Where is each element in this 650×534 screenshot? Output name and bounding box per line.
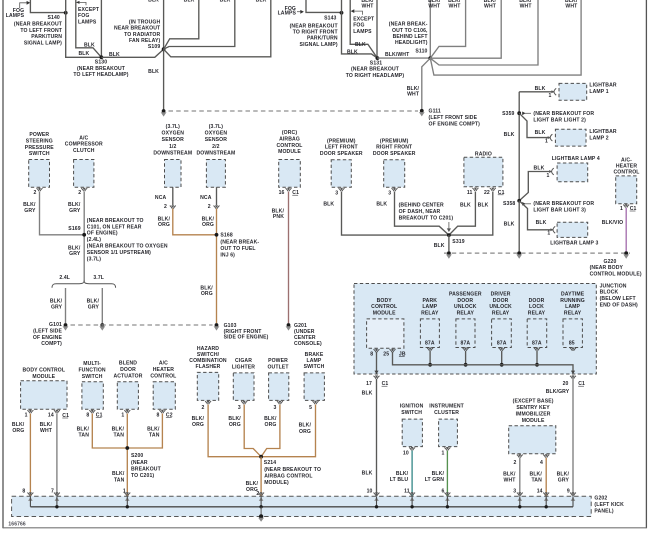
svg-text:C101, ON LEFT REAR: C101, ON LEFT REAR	[87, 224, 142, 230]
svg-text:TAN: TAN	[531, 477, 542, 483]
svg-text:2: 2	[164, 204, 167, 210]
page border left	[2, 0, 4, 528]
svg-text:GRY: GRY	[51, 304, 63, 310]
svg-text:BLK: BLK	[148, 69, 159, 75]
lightbar lamp 1 box	[559, 83, 587, 100]
svg-text:SIDE OF ENGINE): SIDE OF ENGINE)	[224, 335, 269, 341]
svg-text:RELAY: RELAY	[492, 310, 510, 316]
svg-text:G101: G101	[49, 322, 62, 328]
svg-text:BLEND: BLEND	[119, 361, 137, 367]
svg-text:BLK/: BLK/	[432, 471, 445, 477]
svg-text:MODULE: MODULE	[32, 374, 55, 380]
S110 right fan wire 3	[430, 0, 538, 65]
strip junction dots	[55, 505, 58, 508]
junction block outer box	[354, 284, 596, 375]
svg-text:1: 1	[121, 412, 124, 418]
svg-text:OF DASH, NEAR: OF DASH, NEAR	[399, 209, 441, 215]
wire except-fog-lamps left	[76, 0, 102, 57]
svg-text:TO RADIATOR: TO RADIATOR	[124, 32, 160, 38]
svg-text:GRY: GRY	[558, 477, 570, 483]
svg-text:TO LEFT FRONT: TO LEFT FRONT	[20, 28, 62, 34]
svg-text:WHT: WHT	[565, 3, 578, 9]
a/c-heater pin 1 C1	[623, 205, 629, 208]
svg-text:ORG: ORG	[201, 291, 213, 297]
svg-text:SENTRY KEY: SENTRY KEY	[516, 405, 550, 411]
wire PSP to S169 (BLK/GRY)	[40, 192, 85, 235]
wire BCM pin14 to strip (BLK/WHT)	[56, 414, 58, 497]
wire O2-1 to S168 (BLK/ORG)	[173, 209, 217, 235]
svg-text:5: 5	[309, 405, 312, 411]
svg-text:1: 1	[25, 412, 28, 418]
svg-text:HEADLIGHT): HEADLIGHT)	[395, 40, 428, 46]
JB internal bus wire	[393, 352, 574, 371]
node S109	[162, 47, 166, 51]
svg-text:BLK/GRY: BLK/GRY	[546, 389, 570, 395]
svg-text:2: 2	[78, 190, 81, 196]
lightbar lamp 3 box	[557, 222, 588, 237]
svg-text:NEAR BREAKOUT: NEAR BREAKOUT	[114, 26, 161, 32]
svg-text:BLK/WHT: BLK/WHT	[385, 52, 410, 58]
svg-text:(LEFT KICK: (LEFT KICK	[594, 502, 624, 508]
svg-text:WHT: WHT	[504, 477, 517, 483]
JB exit pin 17 C1	[374, 371, 378, 375]
svg-text:BLK/: BLK/	[40, 422, 53, 428]
svg-text:LEFT FRONT: LEFT FRONT	[325, 145, 359, 151]
svg-text:S319: S319	[452, 239, 464, 245]
svg-text:FUNCTION: FUNCTION	[78, 368, 105, 374]
svg-text:11: 11	[467, 190, 473, 196]
wire top into S109	[163, 0, 165, 49]
svg-text:BLK: BLK	[220, 0, 231, 4]
ground S319 point	[447, 251, 451, 255]
svg-text:1: 1	[620, 206, 623, 212]
svg-text:3: 3	[238, 405, 241, 411]
svg-text:22: 22	[484, 190, 490, 196]
svg-text:CONSOLE): CONSOLE)	[294, 341, 322, 347]
svg-text:BLK: BLK	[478, 202, 489, 208]
svg-text:OXYGEN: OXYGEN	[162, 131, 185, 137]
svg-text:A/C-: A/C-	[621, 157, 632, 163]
svg-text:WHT: WHT	[449, 3, 462, 9]
svg-text:BODY CONTROL: BODY CONTROL	[22, 367, 65, 373]
svg-text:AIRBAG: AIRBAG	[279, 136, 300, 142]
svg-text:(NEAR BREAKOUT: (NEAR BREAKOUT	[351, 67, 400, 73]
wire a/c-heater to G220 (BLK/VIO)	[625, 208, 627, 251]
svg-text:BLK: BLK	[355, 42, 366, 48]
node S319	[447, 233, 451, 237]
svg-text:SENSOR: SENSOR	[162, 137, 184, 143]
wire sentry pin2 to strip (BLK/WHT)	[519, 458, 521, 497]
svg-text:A/C: A/C	[79, 135, 88, 141]
svg-text:87A: 87A	[461, 341, 471, 347]
wire S130 to S109	[101, 49, 163, 57]
svg-text:WHT: WHT	[362, 3, 375, 9]
svg-text:(ORC): (ORC)	[282, 130, 297, 136]
svg-text:TAN: TAN	[79, 433, 90, 439]
svg-text:S140: S140	[48, 15, 60, 21]
wire S140 down to S130	[66, 0, 102, 57]
svg-text:(NEAR: (NEAR	[131, 460, 148, 466]
svg-text:S200: S200	[131, 453, 143, 459]
svg-text:1: 1	[549, 93, 552, 99]
S110 right fan wire 2	[430, 0, 501, 58]
svg-text:2: 2	[208, 204, 211, 210]
svg-text:(LEFT FRONT SIDE: (LEFT FRONT SIDE	[429, 115, 478, 121]
svg-text:TAN: TAN	[149, 433, 160, 439]
svg-text:WHT: WHT	[407, 92, 420, 98]
svg-text:GRY: GRY	[69, 251, 81, 257]
svg-text:BLK/: BLK/	[77, 427, 90, 433]
svg-text:BLK: BLK	[504, 132, 515, 138]
strip entry arrows	[27, 493, 33, 496]
svg-text:9: 9	[567, 488, 570, 494]
svg-text:BODY: BODY	[377, 298, 393, 304]
wire BCM pin1 to strip (BLK/ORG)	[29, 414, 31, 497]
svg-text:BLK/: BLK/	[112, 427, 125, 433]
svg-text:(NEAR BREAKOUT FOR: (NEAR BREAKOUT FOR	[533, 111, 594, 117]
svg-text:LIGHTBAR: LIGHTBAR	[589, 129, 616, 135]
svg-text:CLUTCH: CLUTCH	[73, 148, 95, 154]
svg-text:BLK/: BLK/	[112, 471, 125, 477]
svg-text:8: 8	[22, 488, 25, 494]
svg-text:BLK/: BLK/	[530, 471, 543, 477]
svg-text:OUT TO C106,: OUT TO C106,	[392, 28, 428, 34]
svg-text:BLK/: BLK/	[557, 471, 570, 477]
svg-text:(3.7L): (3.7L)	[87, 257, 101, 263]
svg-text:10: 10	[403, 451, 409, 457]
svg-text:CLUSTER: CLUSTER	[434, 410, 459, 416]
svg-text:CONTROL MODULE): CONTROL MODULE)	[590, 272, 642, 278]
svg-text:BLK: BLK	[535, 86, 546, 92]
svg-text:87A: 87A	[497, 341, 507, 347]
node S140	[64, 11, 68, 15]
svg-text:OUT TO FUEL: OUT TO FUEL	[220, 246, 255, 252]
svg-text:(BEHIND CENTER: (BEHIND CENTER	[399, 202, 444, 208]
svg-text:(NEAR BODY: (NEAR BODY	[590, 265, 624, 271]
svg-text:1: 1	[545, 139, 548, 145]
svg-text:DRIVER: DRIVER	[491, 292, 511, 298]
svg-text:RELAY: RELAY	[421, 310, 439, 316]
svg-text:14: 14	[537, 488, 543, 494]
svg-text:WHT: WHT	[40, 428, 53, 434]
svg-text:LIGHT BAR LIGHT 3): LIGHT BAR LIGHT 3)	[533, 207, 586, 213]
wire ACC down through S169	[83, 192, 85, 282]
wire S143 down to S131	[342, 0, 378, 58]
wire radio 11 to S319	[449, 192, 476, 236]
svg-text:BLK: BLK	[148, 0, 159, 4]
ground G201	[287, 323, 291, 327]
node S214	[259, 455, 263, 459]
svg-text:S130: S130	[95, 60, 107, 66]
wire 20 down to G202 strip (BLK/GRY)	[572, 379, 574, 496]
svg-text:S359: S359	[502, 111, 514, 117]
S109 right fan wire 2	[164, 0, 235, 49]
svg-text:RELAY: RELAY	[564, 310, 582, 316]
svg-text:PARK: PARK	[423, 298, 438, 304]
wire 2.4L to G101	[65, 288, 67, 323]
svg-text:(PREMIUM): (PREMIUM)	[380, 138, 409, 144]
wire driver relay to bus	[501, 351, 503, 365]
svg-text:CONTROL: CONTROL	[150, 374, 176, 380]
svg-text:RUNNING: RUNNING	[560, 298, 585, 304]
svg-text:BLK: BLK	[109, 52, 120, 58]
svg-text:2.4L: 2.4L	[59, 275, 70, 281]
svg-text:(BELOW LEFT: (BELOW LEFT	[600, 296, 637, 302]
ground G103	[215, 323, 219, 327]
svg-text:(LEFT SIDE: (LEFT SIDE	[33, 329, 62, 335]
svg-text:SWITCH: SWITCH	[29, 151, 50, 157]
node S200	[125, 446, 129, 450]
svg-text:INSTRUMENT: INSTRUMENT	[429, 403, 464, 409]
wire except-fog-lamps right	[350, 0, 377, 58]
svg-text:BLK: BLK	[256, 0, 267, 4]
svg-text:(NEAR BREAKOUT TO: (NEAR BREAKOUT TO	[87, 218, 144, 224]
svg-text:S143: S143	[324, 15, 336, 21]
svg-text:BLK/: BLK/	[228, 416, 241, 422]
svg-text:SIGNAL LAMP): SIGNAL LAMP)	[300, 42, 338, 48]
wire S319 to ground	[448, 235, 450, 251]
svg-text:3.7L: 3.7L	[93, 275, 104, 281]
node S110	[428, 56, 432, 60]
wire S358 up to lightbar lamp 4	[519, 172, 551, 201]
wire passenger relay to bus	[465, 351, 467, 365]
svg-text:3: 3	[335, 190, 338, 196]
svg-text:UNLOCK: UNLOCK	[454, 304, 477, 310]
svg-text:PARK/TURN: PARK/TURN	[31, 34, 62, 40]
svg-text:OF ENGINE COMPT): OF ENGINE COMPT)	[429, 122, 481, 128]
svg-text:POWER: POWER	[268, 358, 288, 364]
node S168	[215, 233, 219, 237]
svg-text:(PREMIUM): (PREMIUM)	[327, 138, 356, 144]
svg-text:17: 17	[366, 381, 372, 387]
wire S109 down to ground	[163, 49, 165, 109]
svg-text:INJ 6): INJ 6)	[220, 253, 235, 259]
wire R speaker to S319	[395, 192, 449, 236]
wire airbag to G201 (BLK/PNK)	[288, 192, 290, 324]
svg-text:MODULE: MODULE	[278, 149, 301, 155]
svg-text:COMPT): COMPT)	[41, 341, 62, 347]
svg-text:END OF DASH): END OF DASH)	[600, 302, 638, 308]
svg-text:RIGHT FRONT: RIGHT FRONT	[376, 145, 413, 151]
G202 ground strip	[12, 496, 592, 516]
svg-text:(NEAR BREAKOUT: (NEAR BREAKOUT	[290, 23, 339, 29]
svg-text:20: 20	[563, 381, 569, 387]
svg-text:1: 1	[547, 231, 550, 237]
svg-text:BLK: BLK	[79, 51, 90, 57]
svg-text:EXCEPT: EXCEPT	[353, 16, 375, 22]
svg-text:2/2: 2/2	[212, 144, 219, 150]
svg-text:DOOR SPEAKER: DOOR SPEAKER	[320, 151, 363, 157]
svg-text:LAMPS: LAMPS	[278, 11, 297, 17]
svg-text:BLK/: BLK/	[192, 416, 205, 422]
svg-text:ORG: ORG	[265, 422, 277, 428]
svg-text:WHT: WHT	[428, 3, 441, 9]
ground G111	[420, 109, 424, 113]
svg-text:11: 11	[404, 488, 410, 494]
svg-text:MODULE: MODULE	[373, 310, 396, 316]
svg-text:1: 1	[547, 173, 550, 179]
svg-text:LAMP 1: LAMP 1	[589, 89, 608, 95]
ground a/c-heater point	[624, 251, 628, 255]
wire brake lamp to S214	[261, 405, 315, 457]
svg-text:SIGNAL LAMP): SIGNAL LAMP)	[24, 40, 62, 46]
svg-text:BREAKOUT: BREAKOUT	[131, 466, 162, 472]
wire 17 down to G202 strip (BLK)	[376, 379, 378, 496]
svg-text:ORG: ORG	[299, 429, 311, 435]
svg-text:S109: S109	[148, 44, 160, 50]
svg-text:BLK/: BLK/	[503, 471, 516, 477]
svg-text:UNLOCK: UNLOCK	[489, 304, 512, 310]
svg-text:87A: 87A	[425, 341, 435, 347]
svg-text:14: 14	[48, 412, 54, 418]
svg-text:PRESSURE: PRESSURE	[25, 145, 54, 151]
wire door lock relay to bus	[536, 351, 538, 365]
svg-text:IMMOBILIZER: IMMOBILIZER	[516, 412, 551, 418]
ground G101 points	[64, 323, 68, 327]
wire 3.7L to G101	[101, 288, 103, 323]
svg-text:ORG: ORG	[202, 222, 214, 228]
svg-text:BLK: BLK	[534, 166, 545, 172]
svg-text:2: 2	[34, 190, 37, 196]
JB exit pin 20 C1	[571, 371, 575, 375]
svg-text:BLK: BLK	[362, 391, 373, 397]
page border right	[645, 0, 647, 528]
node S359	[518, 92, 520, 201]
svg-text:DOOR SPEAKER: DOOR SPEAKER	[373, 151, 416, 157]
svg-text:COMPRESSOR: COMPRESSOR	[65, 142, 103, 148]
node S358	[517, 199, 521, 203]
svg-text:BLOCK: BLOCK	[600, 290, 619, 296]
wire S359 to lightbar lamp 2	[519, 113, 550, 137]
wire S214 to strip (BLK/ORG)	[260, 457, 262, 497]
wire S131 to S110	[377, 57, 430, 59]
svg-text:NCA: NCA	[155, 195, 167, 201]
wire power outlet to S214	[261, 405, 280, 457]
svg-text:87A: 87A	[532, 341, 542, 347]
svg-text:PNK: PNK	[273, 214, 284, 220]
svg-text:ACTUATOR: ACTUATOR	[113, 374, 142, 380]
svg-text:PARK/TURN: PARK/TURN	[307, 36, 338, 42]
S110 right fan wire 1	[430, 0, 465, 58]
S109 right fan wire 1	[164, 0, 199, 49]
svg-text:(NEAR BREAK-: (NEAR BREAK-	[220, 240, 259, 246]
wire fog-lamps left (to S140)	[30, 0, 65, 13]
svg-text:SWITCH: SWITCH	[304, 364, 325, 370]
ground G111-left point	[162, 109, 166, 113]
dashed ground line G111	[169, 110, 419, 112]
svg-text:RELAY: RELAY	[528, 310, 546, 316]
svg-text:4: 4	[540, 460, 543, 466]
svg-text:MODULE): MODULE)	[264, 480, 289, 486]
svg-text:7: 7	[51, 488, 54, 494]
wire S358 to lightbar lamp 3	[519, 201, 552, 230]
svg-text:(NEAR BREAKOUT FOR: (NEAR BREAKOUT FOR	[533, 201, 594, 207]
svg-text:8: 8	[86, 412, 89, 418]
svg-text:(3.7L): (3.7L)	[166, 124, 180, 130]
G202 ground point	[260, 507, 262, 516]
svg-text:FOG: FOG	[353, 23, 364, 29]
svg-text:S110: S110	[415, 49, 427, 55]
svg-text:3: 3	[513, 488, 516, 494]
svg-text:G220: G220	[604, 259, 617, 265]
svg-text:8: 8	[156, 412, 159, 418]
wire sentry pin4 to strip (BLK/TAN)	[545, 458, 547, 497]
svg-text:LIGHTBAR LAMP 3: LIGHTBAR LAMP 3	[550, 240, 598, 246]
svg-text:10: 10	[367, 488, 373, 494]
svg-text:LAMPS: LAMPS	[353, 29, 372, 35]
svg-text:S131: S131	[370, 60, 382, 66]
svg-text:RADIO: RADIO	[475, 151, 492, 157]
svg-text:ORG: ORG	[158, 222, 170, 228]
svg-text:BLK/: BLK/	[12, 422, 25, 428]
svg-text:TO LEFT HEADLAMP): TO LEFT HEADLAMP)	[73, 72, 128, 78]
svg-text:BLK/: BLK/	[299, 423, 312, 429]
svg-text:BLK: BLK	[376, 201, 387, 207]
svg-text:TO C201): TO C201)	[131, 473, 154, 479]
svg-text:DAYTIME: DAYTIME	[561, 292, 585, 298]
dashed ground line G220	[444, 252, 630, 254]
wire S110 down to G111	[422, 58, 431, 109]
svg-text:ORG: ORG	[192, 422, 204, 428]
wire S359 up and to lightbar lamp 1	[519, 91, 553, 93]
svg-text:LOCK: LOCK	[529, 304, 544, 310]
svg-text:ORG: ORG	[12, 428, 24, 434]
wire top into S130	[100, 0, 102, 57]
svg-text:LAMP 2: LAMP 2	[589, 136, 608, 142]
svg-text:ORG: ORG	[229, 422, 241, 428]
ground S358 point	[517, 251, 521, 255]
svg-text:BLK: BLK	[535, 130, 546, 136]
svg-text:BLK: BLK	[184, 0, 195, 4]
svg-text:BLK/: BLK/	[396, 471, 409, 477]
svg-text:LIGHTBAR: LIGHTBAR	[589, 83, 616, 89]
svg-text:3: 3	[388, 190, 391, 196]
svg-text:85: 85	[569, 341, 575, 347]
svg-text:8: 8	[370, 352, 373, 358]
svg-text:CONTROL: CONTROL	[613, 170, 639, 176]
svg-text:25: 25	[383, 352, 389, 358]
svg-text:(NEAR BREAKOUT: (NEAR BREAKOUT	[14, 22, 63, 28]
S110 right fan wire 4	[430, 0, 581, 75]
strip interior wire stubs	[29, 496, 31, 506]
svg-text:JUNCTION: JUNCTION	[600, 283, 627, 289]
wire multifunction to S200	[92, 414, 127, 449]
wire top into S110	[429, 0, 431, 58]
svg-text:2: 2	[514, 460, 517, 466]
svg-text:(IN TROUGH: (IN TROUGH	[129, 19, 161, 25]
svg-text:IGNITION: IGNITION	[400, 403, 424, 409]
svg-text:(NEAR BREAK-: (NEAR BREAK-	[389, 22, 428, 28]
svg-text:DOOR: DOOR	[493, 298, 509, 304]
svg-text:S168: S168	[220, 233, 232, 239]
node S131	[376, 56, 380, 60]
svg-text:FAN RELAY): FAN RELAY)	[129, 38, 160, 44]
svg-text:PASSENGER: PASSENGER	[449, 292, 482, 298]
wire park relay to bus	[429, 351, 431, 365]
svg-text:POWER: POWER	[29, 132, 49, 138]
svg-text:(2.4L): (2.4L)	[87, 237, 101, 243]
svg-text:BLK/VIO: BLK/VIO	[602, 220, 624, 226]
wire top into S131	[376, 0, 378, 58]
svg-text:BLK: BLK	[362, 471, 373, 477]
svg-text:TAN: TAN	[114, 433, 125, 439]
svg-text:MULTI-: MULTI-	[83, 361, 101, 367]
svg-text:G201: G201	[294, 323, 307, 329]
radio pin 11	[472, 188, 478, 191]
svg-text:G111: G111	[429, 109, 441, 115]
svg-text:LT BLU: LT BLU	[390, 477, 409, 483]
svg-text:LAMP: LAMP	[565, 304, 580, 310]
